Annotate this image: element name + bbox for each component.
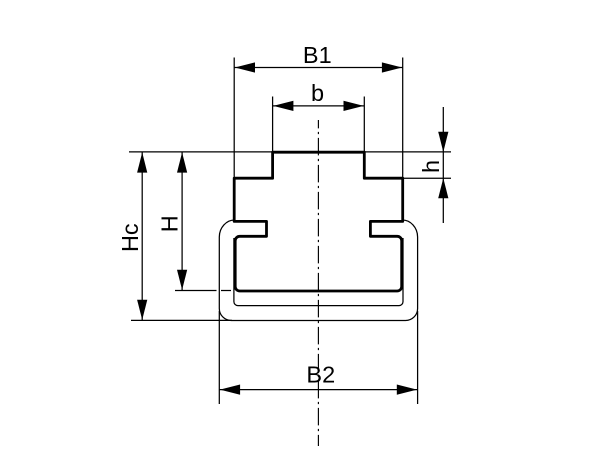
wire H bottom extension line [175,290,217,292]
wire Hc dimension line [141,152,143,321]
resistor plastic chain-guide profile outline [234,152,403,291]
svg-text:H: H [157,215,183,232]
wire B2 dimension line [219,389,417,391]
wire b dimension line [273,105,365,107]
node H label [157,215,183,232]
wire top extension line at profile top level [129,151,451,153]
wire B2 extension lines [218,311,220,404]
wire B1 dimension line [234,67,403,69]
wire H dimension line [181,152,183,291]
wire Hc bottom extension line [131,319,232,321]
svg-text:h: h [418,160,444,173]
svg-text:b: b [311,80,324,106]
svg-text:Hc: Hc [117,223,143,252]
svg-text:B1: B1 [303,42,332,68]
svg-text:B2: B2 [306,362,335,388]
wire B1 extension lines [233,58,235,179]
node h label [418,160,444,173]
capacitor C-channel inner contour [234,238,403,306]
wire h dimension line [442,107,444,223]
node vertical centerline [317,120,319,446]
capacitor C-channel outer contour [219,220,417,321]
wire shoulder-level extension line right [404,177,452,179]
wire b extension lines [272,97,274,152]
node Hc label [117,223,143,252]
